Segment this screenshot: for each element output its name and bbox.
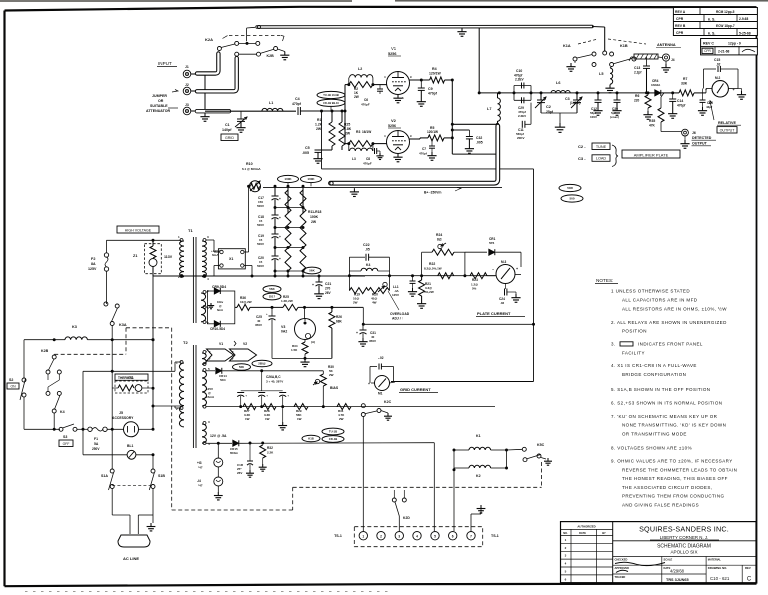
svg-text:+: + <box>356 331 358 335</box>
svg-text:OUTPUT: OUTPUT <box>720 128 736 132</box>
svg-text:NONE TRANSMITTING. 'KD' IS KEY: NONE TRANSMITTING. 'KD' IS KEY DOWN <box>622 423 726 428</box>
svg-text:POSITION: POSITION <box>622 329 647 334</box>
svg-text:220: 220 <box>634 99 640 103</box>
ground at K2C <box>381 411 388 414</box>
svg-text:REVERSE THE OHMMETER LEADS TO: REVERSE THE OHMMETER LEADS TO OBTAIN <box>622 468 737 473</box>
svg-text:PREVENTING THEM FROM CONDUCTIN: PREVENTING THEM FROM CONDUCTING <box>622 494 725 499</box>
svg-text:K2C: K2C <box>384 400 392 404</box>
svg-text:C14: C14 <box>677 99 683 103</box>
oval tags TU-1B CD-1B K1B <box>322 428 344 435</box>
svg-text:50R: 50R <box>567 186 573 190</box>
wire R10 to B+ line <box>263 186 502 188</box>
svg-text:M.3: M.3 <box>501 260 507 264</box>
svg-text:.02: .02 <box>500 301 505 305</box>
ground at J3 <box>204 113 206 117</box>
wire bias to grid meter <box>322 370 324 372</box>
svg-text:5D4: 5D4 <box>220 378 226 382</box>
svg-text:+: + <box>279 257 281 261</box>
svg-text:470pf: 470pf <box>428 92 438 96</box>
svg-text:K1B: K1B <box>620 44 628 48</box>
meter M2 relative output <box>712 81 728 97</box>
svg-text:K3A: K3A <box>119 323 127 327</box>
wire B minus line <box>363 323 534 325</box>
svg-text:R22: R22 <box>429 262 435 266</box>
svg-text:6. S2,+S3 SHOWN IN ITS NORMAL: 6. S2,+S3 SHOWN IN ITS NORMAL POSITION <box>611 401 722 406</box>
svg-text:INPUT: INPUT <box>158 61 172 66</box>
svg-text:2.2EV: 2.2EV <box>515 78 525 82</box>
svg-text:C9: C9 <box>428 87 433 91</box>
wire receive tap to tank <box>478 28 480 93</box>
svg-text:OUTPUT: OUTPUT <box>692 142 708 146</box>
svg-text:TUNE: TUNE <box>596 145 607 149</box>
svg-text:+: + <box>312 283 314 287</box>
T2 HV winding <box>203 369 206 372</box>
svg-text:2-9-68: 2-9-68 <box>739 17 748 21</box>
oval tag CD-1B <box>317 99 345 106</box>
svg-text:THERMAL: THERMAL <box>118 376 134 380</box>
svg-text:5A: 5A <box>94 442 99 446</box>
svg-text:4/29/68: 4/29/68 <box>670 569 685 574</box>
svg-text:+: + <box>279 235 281 239</box>
wire B+ feed to filters <box>263 185 330 187</box>
coax B+ line with bend <box>331 126 498 183</box>
svg-text:47K: 47K <box>649 124 656 128</box>
svg-text:26V: 26V <box>237 471 242 475</box>
terminal strip TS-1 <box>354 527 482 547</box>
tank bus wire <box>479 92 630 94</box>
svg-text:470pf: 470pf <box>677 104 686 108</box>
svg-text:56K: 56K <box>239 365 245 369</box>
svg-text:HIGH VOLTAGE: HIGH VOLTAGE <box>125 228 152 232</box>
svg-text:C13: C13 <box>634 66 640 70</box>
svg-text:140pf: 140pf <box>222 128 232 132</box>
svg-text:OR: OR <box>158 99 164 103</box>
svg-text:AND GIVING FALSE READINGS: AND GIVING FALSE READINGS <box>622 503 699 508</box>
svg-text:OVERLOAD: OVERLOAD <box>390 312 410 316</box>
svg-text:2-21-68: 2-21-68 <box>718 50 730 54</box>
svg-text:125V: 125V <box>88 267 97 271</box>
wire main plate rail <box>349 275 495 277</box>
wire rail from left <box>349 275 365 277</box>
thermal breaker TB <box>115 374 148 380</box>
svg-text:J1: J1 <box>185 65 189 69</box>
wire C4 node to V1/V2 split <box>344 85 346 144</box>
wire K2C to terminal 1 <box>362 417 364 532</box>
svg-text:L3: L3 <box>352 157 356 161</box>
svg-text:LIBERTY CORNER N. J.: LIBERTY CORNER N. J. <box>660 535 709 540</box>
svg-text:J5: J5 <box>119 411 123 415</box>
AC line cord <box>112 514 130 516</box>
svg-text:R11-R18: R11-R18 <box>308 210 321 214</box>
svg-text:5256: 5256 <box>388 124 396 128</box>
svg-text:−: − <box>492 268 494 272</box>
heater block Z1 right <box>218 249 245 269</box>
svg-text:C2: C2 <box>546 105 551 109</box>
svg-text:BY: BY <box>602 531 606 535</box>
wire antenna branch <box>658 56 662 59</box>
svg-text:2: 2 <box>380 534 382 538</box>
svg-text:K1B: K1B <box>308 437 314 441</box>
svg-text:7: 7 <box>470 534 472 538</box>
svg-text:APOLLO SIX: APOLLO SIX <box>670 549 697 554</box>
svg-text:THE HONEST READING, THIS BIASE: THE HONEST READING, THIS BIASES OFF <box>622 476 728 481</box>
svg-text:R6: R6 <box>635 94 639 98</box>
svg-text:.05: .05 <box>365 248 370 252</box>
wire HV top <box>107 239 182 241</box>
svg-text:15mA: 15mA <box>206 395 215 399</box>
svg-text:2.2EV: 2.2EV <box>518 114 526 118</box>
svg-text:-.02: -.02 <box>378 356 384 360</box>
scan edge top <box>0 0 352 2</box>
svg-text:500V: 500V <box>257 223 264 227</box>
svg-text:C4: C4 <box>295 97 300 101</box>
svg-text:1W: 1W <box>297 417 302 421</box>
capacitor C1 140pf <box>240 111 242 119</box>
ground under V2 <box>397 154 399 158</box>
wire T2 primary <box>175 361 182 363</box>
svg-text:ANTENNA: ANTENNA <box>657 43 676 47</box>
svg-text:C8: C8 <box>366 157 370 161</box>
ground under L5 <box>609 85 611 89</box>
svg-text:V2: V2 <box>391 118 397 123</box>
svg-text:500V: 500V <box>257 264 264 268</box>
svg-text:100K: 100K <box>284 177 292 181</box>
coax from J2 to K2A <box>197 58 237 91</box>
oval tag 2517 <box>263 293 281 300</box>
svg-text:K4: K4 <box>366 263 370 267</box>
svg-text:2W: 2W <box>354 95 359 99</box>
svg-text:56K: 56K <box>269 287 275 291</box>
svg-text:4W: 4W <box>372 301 377 305</box>
capacitor C5 .005 <box>331 146 333 150</box>
ground on coax <box>461 28 463 32</box>
svg-text:470pf: 470pf <box>292 102 302 106</box>
svg-text:C32: C32 <box>476 136 482 140</box>
svg-text:INDICATES FRONT PANEL: INDICATES FRONT PANEL <box>638 342 703 347</box>
ground at M2 right <box>738 88 742 90</box>
svg-text:ADJ / ↑: ADJ / ↑ <box>392 317 404 321</box>
oval tag 500 <box>561 195 583 202</box>
svg-text:CPR: CPR <box>676 31 684 35</box>
svg-text:2W: 2W <box>353 301 358 305</box>
svg-text:F1: F1 <box>94 437 98 441</box>
svg-text:C7: C7 <box>422 147 426 151</box>
dashed S1 gang link <box>112 485 153 487</box>
revision table <box>673 8 757 36</box>
capacitor C9 470pf <box>420 80 422 88</box>
meter M3 plate current <box>496 265 515 284</box>
wire AGC return <box>321 111 323 169</box>
svg-text:AMPLIFIER PLATE: AMPLIFIER PLATE <box>634 152 669 157</box>
svg-text:RELATIVE: RELATIVE <box>718 121 736 125</box>
ground for tank <box>541 112 577 114</box>
svg-text:ALL CAPACITORS ARE IN MFD: ALL CAPACITORS ARE IN MFD <box>622 298 698 303</box>
svg-text:K4: K4 <box>60 410 65 414</box>
svg-text:100V: 100V <box>590 115 597 119</box>
svg-text:SUITABLE: SUITABLE <box>150 104 168 108</box>
svg-text:6: 6 <box>452 534 454 538</box>
svg-text:REV A: REV A <box>675 10 686 14</box>
ground at K2B <box>278 49 285 52</box>
svg-text:20KV: 20KV <box>517 136 525 140</box>
svg-text:R26: R26 <box>336 315 342 319</box>
svg-text:26V: 26V <box>325 291 332 295</box>
svg-text:SQUIRES-SANDERS INC.: SQUIRES-SANDERS INC. <box>639 525 729 534</box>
svg-text:.005: .005 <box>476 141 483 145</box>
meter M1 grid current <box>375 376 390 391</box>
svg-text:+: + <box>279 197 281 201</box>
svg-text:+: + <box>279 216 281 220</box>
svg-text:TU-1B: TU-1B <box>329 430 337 434</box>
svg-text:470pf: 470pf <box>419 152 427 156</box>
svg-text:OFF: OFF <box>63 442 70 446</box>
title block <box>561 522 757 583</box>
svg-text:CD-1B: CD-1B <box>329 437 338 441</box>
svg-text:R3: R3 <box>356 130 360 134</box>
svg-text:J6: J6 <box>692 131 696 135</box>
svg-text:470pF: 470pF <box>361 103 370 107</box>
svg-text:V2: V2 <box>243 342 247 346</box>
ground under V1 <box>397 95 399 99</box>
svg-text:F2: F2 <box>91 257 95 261</box>
svg-text:K1A: K1A <box>563 44 571 48</box>
svg-text:5256: 5256 <box>388 52 396 56</box>
oval tag 56K near rail <box>303 267 321 274</box>
brace to amplifier plate <box>612 145 618 167</box>
capacitor C11 560pf 20KV <box>521 121 523 128</box>
svg-text:SCALE: SCALE <box>664 558 673 562</box>
svg-text:L1: L1 <box>269 101 273 105</box>
plate wire V2 <box>409 138 420 140</box>
svg-text:GRID: GRID <box>225 136 234 140</box>
svg-text:C21: C21 <box>325 282 331 286</box>
svg-text:REV B: REV B <box>675 24 686 28</box>
svg-text:S1B: S1B <box>158 474 165 478</box>
svg-text:5%: 5% <box>472 287 477 291</box>
wire M3 to bias box <box>521 274 535 276</box>
svg-text:L2: L2 <box>358 67 362 71</box>
svg-text:BIAS: BIAS <box>330 386 339 390</box>
svg-text:6. S.: 6. S. <box>708 18 715 22</box>
svg-text:2W: 2W <box>316 127 322 131</box>
svg-text:+: + <box>516 267 518 271</box>
svg-text:K3: K3 <box>72 325 77 329</box>
svg-text:1.5K: 1.5K <box>291 348 298 352</box>
capacitor C23 <box>412 276 414 281</box>
svg-text:5P4: 5P4 <box>489 241 495 245</box>
svg-text:DETECTED: DETECTED <box>692 136 712 140</box>
jack J6 detected output <box>682 129 689 136</box>
svg-text:2. ALL RELAYS ARE SHOWN IN UN: 2. ALL RELAYS ARE SHOWN IN UNENERGIZED <box>611 320 727 325</box>
svg-text:K2B: K2B <box>41 349 49 353</box>
svg-text:470pF: 470pF <box>363 162 372 166</box>
note 3 box symbol <box>620 342 633 346</box>
svg-text:R1: R1 <box>317 118 321 122</box>
svg-text:CPR: CPR <box>704 49 711 53</box>
svg-text:1 UNLESS OTHERWISE STATED: 1 UNLESS OTHERWISE STATED <box>611 289 690 294</box>
capacitor C30 5pf <box>616 93 618 100</box>
svg-text:J4: J4 <box>671 58 675 62</box>
svg-text:X1: X1 <box>229 257 233 261</box>
svg-text:L5: L5 <box>599 72 603 76</box>
svg-text:1.2K,2W: 1.2K,2W <box>281 299 293 303</box>
wire V1V2 plate node to coax <box>451 80 453 154</box>
wire to C31 node <box>362 307 364 324</box>
svg-text:ATTENUATOR: ATTENUATOR <box>146 109 171 113</box>
capacitor C12 56pf <box>597 93 599 100</box>
svg-text:0A2: 0A2 <box>281 330 287 334</box>
wire T1 sec to X1 <box>206 239 249 241</box>
svg-text:NO.: NO. <box>563 531 568 535</box>
svg-text:9. OHMIC VALUES ARE TO ±20%,: 9. OHMIC VALUES ARE TO ±20%, IF NECESSAR… <box>611 459 733 464</box>
svg-text:RCM 12pp-5: RCM 12pp-5 <box>716 10 735 14</box>
svg-text:AUTHORIZED: AUTHORIZED <box>577 525 595 529</box>
svg-text:3: 3 <box>398 534 400 538</box>
svg-text:Z1: Z1 <box>133 254 137 258</box>
svg-text:BRIDGE CONFIGURATION: BRIDGE CONFIGURATION <box>622 372 686 377</box>
svg-text:AC LINE: AC LINE <box>123 556 139 561</box>
svg-text:100K: 100K <box>310 215 319 219</box>
svg-text:250V: 250V <box>92 447 100 451</box>
svg-text:ACCESSORY: ACCESSORY <box>112 416 134 420</box>
wire plate supply rail <box>153 275 365 277</box>
svg-text:2.2pf: 2.2pf <box>634 71 642 75</box>
left rail S2 <box>23 340 25 378</box>
ground mid 125V row <box>282 407 284 422</box>
wire K1 rail to terminal 6 <box>453 470 455 531</box>
svg-text:S2: S2 <box>9 378 13 382</box>
svg-text:ECW 18pp-7: ECW 18pp-7 <box>716 24 735 28</box>
svg-text:S3: S3 <box>63 435 67 439</box>
main rail to overload loop <box>344 276 346 307</box>
svg-text:285@: 285@ <box>258 362 266 366</box>
wire J1-J2-J3 vertical bus <box>191 73 205 75</box>
svg-text:CHECKED: CHECKED <box>615 558 628 562</box>
coax from J1 to K2A <box>197 54 218 74</box>
title block grid <box>661 557 663 583</box>
svg-text:3 + 40, 28?V: 3 + 40, 28?V <box>266 380 283 384</box>
svg-text:68K: 68K <box>336 320 343 324</box>
svg-text:J3: J3 <box>185 103 189 107</box>
svg-text:1: 1 <box>362 534 364 538</box>
plate wire V1 <box>409 79 430 81</box>
svg-text:2W: 2W <box>311 220 317 224</box>
svg-text:L7: L7 <box>487 107 491 111</box>
oval tag 100K left <box>278 175 299 182</box>
svg-text:500V: 500V <box>257 242 264 246</box>
label GRID boxed <box>221 134 238 141</box>
svg-text:M.2: M.2 <box>715 76 721 80</box>
svg-text:CR10-5D4: CR10-5D4 <box>210 327 225 331</box>
wire to V2 grid <box>373 143 387 145</box>
svg-text:4. X1 IS CR1-CR8 IN A FULL-WA: 4. X1 IS CR1-CR8 IN A FULL-WAVE <box>611 363 697 368</box>
svg-text:V3: V3 <box>281 325 285 329</box>
svg-text:+I3: +I3 <box>197 461 202 465</box>
svg-text:T1: T1 <box>188 228 193 233</box>
svg-text:L6: L6 <box>556 81 560 85</box>
coax from J3 to L1 <box>197 109 229 113</box>
svg-text:BL1: BL1 <box>127 444 134 448</box>
svg-text:2.2K: 2.2K <box>267 451 274 455</box>
svg-text:7. 'KU' ON SCHEMATIC MEANS KE: 7. 'KU' ON SCHEMATIC MEANS KEY UP OR <box>611 414 718 419</box>
svg-text:M1: M1 <box>378 392 383 396</box>
label HIGH VOLTAGE <box>117 226 159 233</box>
svg-text:5%,2W: 5%,2W <box>424 290 434 294</box>
svg-text:R7: R7 <box>683 77 687 81</box>
svg-text:S1A: S1A <box>101 474 108 478</box>
svg-text:12V @ .5A: 12V @ .5A <box>210 434 227 438</box>
svg-text:(coax): (coax) <box>610 115 619 119</box>
svg-text:12pp - 9: 12pp - 9 <box>728 42 741 46</box>
svg-text:5-25-68: 5-25-68 <box>739 32 751 36</box>
svg-text:ON: ON <box>10 384 16 388</box>
svg-text:+: + <box>287 394 289 398</box>
svg-text:K2D: K2D <box>403 516 410 520</box>
svg-text:JUMPER: JUMPER <box>152 94 167 98</box>
svg-text:GRID CURRENT: GRID CURRENT <box>400 387 431 392</box>
svg-text:LOAD: LOAD <box>596 157 607 161</box>
svg-text:65/3m: 65/3m <box>230 451 238 455</box>
svg-text:TRS 3JUN65: TRS 3JUN65 <box>666 578 689 582</box>
oval tag 56K heater <box>233 364 251 371</box>
svg-text:10@,2W: 10@,2W <box>240 300 252 304</box>
svg-text:K5C: K5C <box>537 443 545 447</box>
T2 heater winding <box>203 351 206 354</box>
relay K1K2 rails <box>453 450 455 470</box>
svg-text:PLATE CURRENT: PLATE CURRENT <box>477 311 511 316</box>
svg-text:K2B: K2B <box>267 54 275 58</box>
svg-text:2W: 2W <box>345 132 351 136</box>
svg-text:270: 270 <box>325 287 331 291</box>
svg-text:CD-1B 9B-10: CD-1B 9B-10 <box>323 101 339 105</box>
svg-text:*47: *47 <box>198 484 203 488</box>
svg-text:K2: K2 <box>476 474 481 478</box>
svg-text:C22: C22 <box>363 243 370 247</box>
svg-text:R24: R24 <box>436 233 442 237</box>
svg-text:CPR: CPR <box>676 17 684 21</box>
svg-text:.02: .02 <box>716 63 721 67</box>
filter ladder ties <box>275 207 303 209</box>
svg-text:TU-1B 10-9B: TU-1B 10-9B <box>323 93 339 97</box>
svg-text:NOTES:: NOTES: <box>596 278 613 283</box>
svg-text:C2 -: C2 - <box>578 144 586 149</box>
svg-text:+: + <box>266 312 268 316</box>
capacitor C7 470pf <box>431 140 433 146</box>
svg-text:2W: 2W <box>329 373 334 377</box>
svg-text:1W: 1W <box>245 417 250 421</box>
svg-text:C10 - 621: C10 - 621 <box>710 576 730 581</box>
border frame <box>5 7 757 11</box>
svg-text:TS-1: TS-1 <box>491 534 499 538</box>
svg-text:C15: C15 <box>714 58 720 62</box>
revision table C <box>701 39 758 47</box>
svg-text:R10: R10 <box>246 162 253 166</box>
svg-text:8. VOLTAGES SHOWN ARE ±10%: 8. VOLTAGES SHOWN ARE ±10% <box>611 446 692 451</box>
ground on B+ line <box>353 188 355 192</box>
svg-text:C1: C1 <box>225 123 230 127</box>
wire K3A rail to S1A <box>111 429 113 469</box>
svg-text:3.: 3. <box>611 342 616 347</box>
svg-text:R4: R4 <box>432 67 437 71</box>
svg-text:MATERIAL: MATERIAL <box>708 558 722 562</box>
svg-text:DATE: DATE <box>579 531 586 535</box>
AC plug <box>118 535 150 547</box>
svg-text:B+ -150V/n: B+ -150V/n <box>424 191 441 195</box>
svg-text:V1: V1 <box>391 46 397 51</box>
svg-text:+: + <box>266 394 268 398</box>
label AMPLIFIER PLATE <box>622 150 680 158</box>
svg-text:1W: 1W <box>265 417 270 421</box>
